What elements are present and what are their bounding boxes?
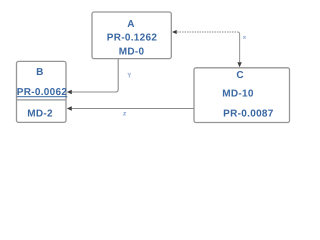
label z: [124, 112, 126, 115]
label Y: [128, 73, 131, 78]
svg-text:A: A: [127, 19, 135, 30]
svg-text:PR-0.0087: PR-0.0087: [223, 108, 274, 119]
wire x solid segment into C: [237, 32, 241, 67]
wire z from C to B: [67, 106, 194, 110]
node C: [194, 68, 290, 123]
node B: [17, 61, 68, 122]
svg-text:MD-0: MD-0: [119, 46, 145, 57]
svg-text:PR-0.1262: PR-0.1262: [107, 33, 158, 44]
divider in node B: [17, 99, 67, 101]
svg-text:MD-10: MD-10: [222, 88, 254, 99]
wire Y from A to B: [67, 59, 118, 94]
label x: [243, 36, 245, 39]
svg-text:B: B: [36, 67, 44, 78]
svg-text:MD-2: MD-2: [27, 108, 53, 119]
node A: [92, 12, 171, 59]
wire x dashed segment into A: [172, 30, 238, 34]
svg-text:PR-0.0062: PR-0.0062: [17, 87, 68, 98]
svg-text:C: C: [236, 70, 244, 81]
